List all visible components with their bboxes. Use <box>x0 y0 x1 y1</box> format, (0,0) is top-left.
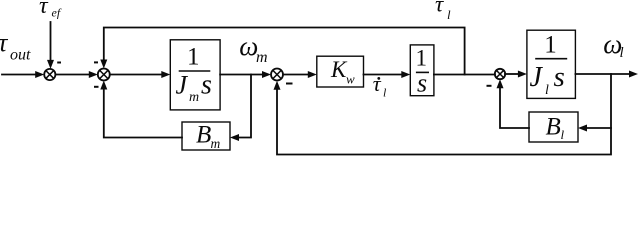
wire S2 to block Jm <box>110 74 162 76</box>
minus at S1 <box>57 62 61 64</box>
svg-text:τ: τ <box>39 0 49 19</box>
arrowhead into Bl <box>578 125 587 132</box>
arrowhead into integrator <box>401 71 410 78</box>
svg-text:τ: τ <box>0 28 9 57</box>
minus at S3 <box>286 83 293 85</box>
svg-text:m: m <box>256 49 268 66</box>
wire Bm takeoff riser <box>238 75 251 138</box>
svg-text:l: l <box>620 45 624 61</box>
arrowhead into block Jl <box>518 71 527 78</box>
arrowhead top feedback into S2 top <box>100 60 107 69</box>
arrowhead into S1 <box>35 71 44 78</box>
wire branch to Bl <box>586 127 611 129</box>
arrowhead into S2 <box>89 71 98 78</box>
svg-text:m: m <box>211 136 221 151</box>
arrowhead omega_l output <box>629 71 638 78</box>
minus at S4 <box>487 85 492 87</box>
svg-text:1: 1 <box>416 45 428 70</box>
wire top feedback: riser from tau_l node <box>104 28 465 75</box>
svg-text:1: 1 <box>544 32 557 59</box>
svg-text:1: 1 <box>187 44 200 71</box>
svg-text:s: s <box>417 69 427 98</box>
svg-text:τ: τ <box>435 0 444 17</box>
svg-text:τ: τ <box>373 71 382 96</box>
wire integrator out to S4 <box>434 74 495 76</box>
block Kw <box>317 56 364 87</box>
svg-text:ef: ef <box>52 6 62 20</box>
arrowhead into Kw <box>308 71 317 78</box>
arrowhead bottom feedback into S3 <box>274 81 281 90</box>
arrowhead Bl feedback into S4 bottom <box>497 79 504 88</box>
svg-text:J: J <box>176 71 189 100</box>
wire Bl output to S4 bottom <box>500 87 529 128</box>
wire S4 to block Jl <box>505 73 519 75</box>
wire bottom feedback from omega_l to S3 <box>277 74 611 155</box>
wire tau_ef vertical <box>50 22 52 61</box>
summing junction S4 <box>495 69 505 79</box>
arrowhead into Bm <box>230 134 239 141</box>
wire Jm out to S3 <box>220 74 263 76</box>
arrowhead into S3 <box>262 71 271 78</box>
wire S3 to Kw <box>283 74 309 76</box>
arrowhead Bm feedback into S2 bottom <box>100 81 107 90</box>
svg-text:l: l <box>447 7 451 22</box>
summing junction S2 <box>98 69 110 81</box>
minus at S2 bottom <box>94 86 99 88</box>
minus at S2 top <box>94 61 98 63</box>
svg-text:l: l <box>561 127 565 142</box>
block 1/(Jl s) <box>527 30 576 98</box>
svg-text:J: J <box>530 62 544 93</box>
svg-text:l: l <box>545 83 549 98</box>
summing junction S3 <box>271 69 283 81</box>
svg-text:m: m <box>189 90 199 105</box>
arrowhead tau_ef into S1 top <box>47 60 54 69</box>
svg-text:out: out <box>10 47 31 64</box>
svg-text:B: B <box>546 114 561 141</box>
svg-text:l: l <box>383 86 387 100</box>
arrowhead into block Jm <box>161 71 170 78</box>
wire Jl out / omega_l output <box>575 73 629 75</box>
svg-text:w: w <box>346 72 355 87</box>
wire Kw to integrator <box>364 74 403 76</box>
block Bl <box>529 112 578 142</box>
svg-text:s: s <box>554 61 565 93</box>
wire Bm output to S2 bottom <box>104 89 182 138</box>
block Bm <box>182 122 230 150</box>
svg-text:B: B <box>196 122 211 149</box>
svg-text:s: s <box>201 70 212 101</box>
label tau_dot_l <box>377 77 380 80</box>
summing junction S1 <box>44 69 55 80</box>
wire tau_out input <box>2 74 36 76</box>
block 1/s integrator <box>410 45 434 96</box>
block 1/(Jm s) <box>170 40 220 110</box>
wire S1 to S2 <box>55 74 89 76</box>
